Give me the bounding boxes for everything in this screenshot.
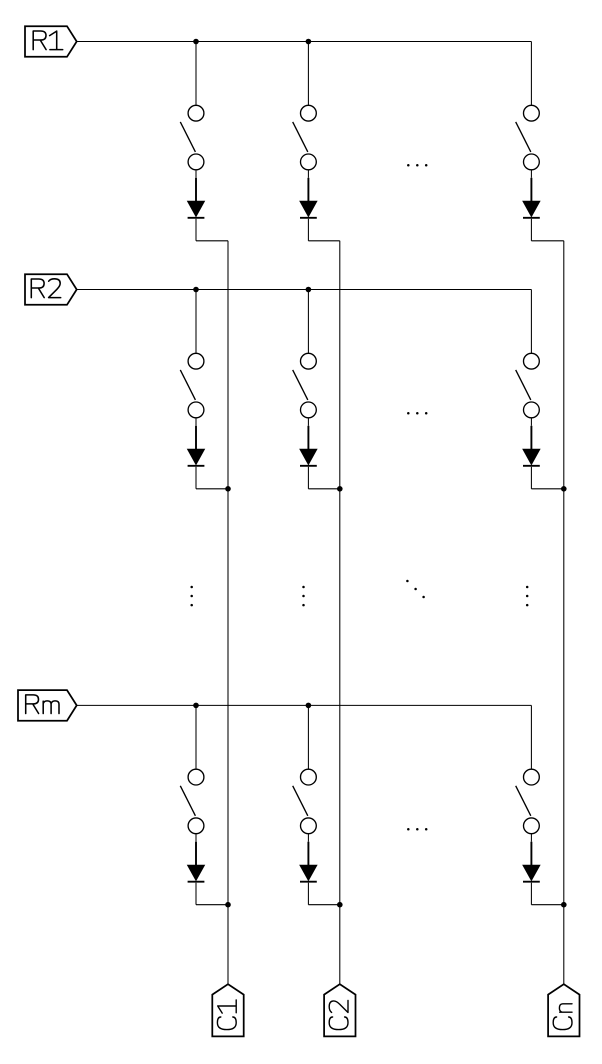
diode D11 bbox=[188, 170, 205, 218]
switch SWm2 bbox=[293, 769, 317, 834]
wire Dm1 cathode to column C1 bbox=[196, 883, 228, 905]
switch SW12 bbox=[293, 105, 317, 170]
wire row R1 bbox=[77, 41, 532, 43]
wire row R2 bbox=[77, 289, 532, 291]
wire R1 to switch SW11 bbox=[195, 42, 197, 106]
wire R1 to switch SW1n bbox=[530, 42, 532, 106]
wire row Rm bbox=[77, 704, 532, 706]
junction D22 / column C2 bbox=[337, 486, 343, 492]
ellipsis dots row Rm (more columns) bbox=[407, 828, 427, 831]
diode D1n bbox=[523, 170, 540, 218]
switch SWmn bbox=[516, 769, 540, 834]
hierarchical label R2 bbox=[25, 274, 77, 305]
switch SW22 bbox=[293, 353, 317, 417]
diode Dm2 bbox=[300, 834, 317, 882]
wire Rm to switch SWmn bbox=[530, 705, 532, 769]
junction R2 / SW21 stub bbox=[193, 287, 199, 293]
switch SW21 bbox=[180, 353, 204, 417]
wire D11 cathode to column C1 bbox=[196, 219, 228, 241]
hierarchical label C2 bbox=[324, 984, 355, 1036]
junction D21 / column C1 bbox=[225, 486, 231, 492]
diode D21 bbox=[188, 418, 205, 466]
wire Rm to switch SWm1 bbox=[195, 705, 197, 769]
wire Dmn cathode to column Cn bbox=[531, 883, 563, 905]
junction Dm1 / column C1 bbox=[225, 902, 231, 908]
diode Dmn bbox=[523, 834, 540, 882]
wire R2 to switch SW22 bbox=[307, 290, 309, 354]
junction Rm / SWm1 stub bbox=[193, 703, 199, 709]
wire R2 to switch SW21 bbox=[195, 290, 197, 354]
vertical ellipsis dots column Cn (more rows) bbox=[526, 586, 529, 607]
ellipsis dots row R1 (more columns) bbox=[407, 164, 427, 167]
vertical ellipsis dots column C1 (more rows) bbox=[190, 586, 193, 607]
switch SW2n bbox=[516, 353, 540, 417]
diode Dm1 bbox=[188, 834, 205, 882]
wire column Cn bbox=[563, 241, 565, 984]
wire Rm to switch SWm2 bbox=[307, 705, 309, 769]
junction R1 / SW12 stub bbox=[306, 39, 312, 45]
wire D2n cathode to column Cn bbox=[531, 467, 563, 489]
junction Dmn / column Cn bbox=[561, 902, 567, 908]
switch SW11 bbox=[180, 105, 204, 170]
wire D21 cathode to column C1 bbox=[196, 467, 228, 489]
hierarchical label R1 bbox=[25, 26, 77, 57]
diode D12 bbox=[300, 170, 317, 218]
diode D22 bbox=[300, 418, 317, 466]
wire R1 to switch SW12 bbox=[307, 42, 309, 106]
ellipsis dots row R2 (more columns) bbox=[407, 412, 427, 415]
diode D2n bbox=[523, 418, 540, 466]
hierarchical label C1 bbox=[212, 984, 243, 1036]
vertical ellipsis dots column C2 (more rows) bbox=[302, 586, 305, 607]
junction R2 / SW22 stub bbox=[306, 287, 312, 293]
junction R1 / SW11 stub bbox=[193, 39, 199, 45]
wire Dm2 cathode to column C2 bbox=[308, 883, 339, 905]
junction Rm / SWm2 stub bbox=[306, 703, 312, 709]
switch SW1n bbox=[516, 105, 540, 170]
hierarchical label Cn bbox=[548, 984, 579, 1036]
wire R2 to switch SW2n bbox=[530, 290, 532, 354]
junction D2n / column Cn bbox=[561, 486, 567, 492]
switch SWm1 bbox=[180, 769, 204, 834]
wire D1n cathode to column Cn bbox=[531, 219, 563, 241]
wire column C2 bbox=[339, 241, 341, 984]
diagonal ellipsis dots (more rows and columns) bbox=[406, 580, 425, 599]
wire column C1 bbox=[227, 241, 229, 984]
wire D12 cathode to column C2 bbox=[308, 219, 339, 241]
junction Dm2 / column C2 bbox=[337, 902, 343, 908]
hierarchical label Rm bbox=[18, 690, 77, 721]
wire D22 cathode to column C2 bbox=[308, 467, 339, 489]
